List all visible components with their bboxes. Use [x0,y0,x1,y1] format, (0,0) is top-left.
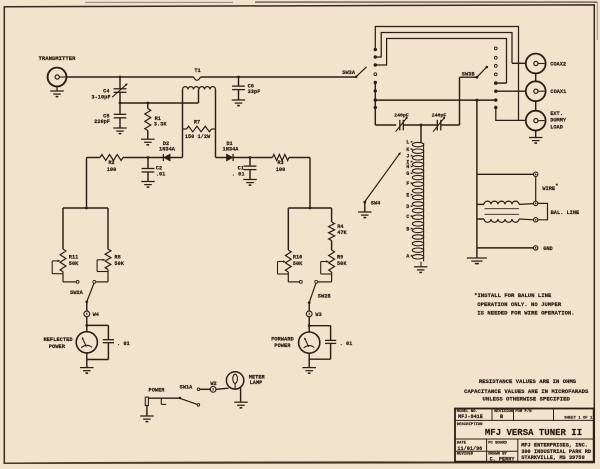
ground [56,86,58,90]
resistor R4 47K [331,208,333,222]
svg-text:R10: R10 [293,255,303,261]
svg-text:EXT.: EXT. [550,111,563,117]
svg-text:D: D [406,204,409,210]
svg-text:B: B [500,414,503,420]
svg-text:COAX2: COAX2 [550,61,566,67]
svg-text:POWER: POWER [49,344,66,350]
wire link outer loop [375,27,518,121]
jack switch contact [160,398,162,404]
svg-text:MFJ VERSA TUNER II: MFJ VERSA TUNER II [485,428,582,438]
meter M2 FORWARD POWER [308,324,311,327]
capacitor C6 33pF [237,76,240,79]
wire pot box top left [63,207,108,209]
potentiometer R8 50K [105,249,111,269]
svg-text:E: E [406,192,409,198]
svg-text:WIRE: WIRE [542,186,555,192]
svg-text:T1: T1 [194,68,200,74]
resistor R1 3.3K [147,103,149,109]
svg-text:47K: 47K [337,230,347,236]
svg-text:50K: 50K [337,261,347,267]
resistor R7 150 1/2W [183,128,187,130]
svg-text:C: C [406,214,409,220]
svg-text:F: F [406,181,409,187]
svg-text:SW4: SW4 [371,201,381,207]
wire connector shield links [535,73,537,81]
svg-text:MFJ-941E: MFJ-941E [458,414,483,420]
diode D2 1N34A [162,154,164,161]
svg-text:11/01/96: 11/01/96 [457,446,482,452]
ground [141,181,155,183]
wire main input line [66,76,193,78]
svg-text:100: 100 [276,167,286,173]
wire between caps [403,124,437,126]
wire T1 right leg [215,90,217,158]
svg-text:SW2B: SW2B [318,293,332,299]
svg-text:. 01: . 01 [117,341,130,347]
capacitor C1 .01 [249,156,252,159]
meter M1 REFLECTED POWER [85,324,88,327]
svg-text:.01: .01 [156,172,166,178]
svg-text:SHEET 1 OF 1: SHEET 1 OF 1 [564,416,593,420]
svg-text:REVISION: REVISION [494,410,513,414]
balun T2 bottom winding [484,219,519,222]
wire T1 center tap [198,90,200,104]
svg-text:FORWARD: FORWARD [271,336,294,342]
transformer T1 secondary winding [183,87,216,90]
wire link middle loop [375,33,512,64]
svg-text:GND: GND [543,246,553,252]
wire COAX2 row [512,62,526,64]
svg-text:TRANSMITTER: TRANSMITTER [39,55,77,62]
wire jumper WIRE to balanced line [535,177,537,202]
ground [535,131,537,138]
svg-text:R3: R3 [277,160,283,166]
svg-text:W3: W3 [315,312,321,318]
svg-text:IS NEEDED FOR WIRE OPERATION.: IS NEEDED FOR WIRE OPERATION. [477,310,574,317]
svg-text:50K: 50K [69,261,79,267]
diode D1 1N34A [227,154,233,161]
wire left drop to pots [86,158,88,209]
capacitor C4 3-10pF variable [119,76,122,79]
wire link inner loop [375,39,506,84]
capacitor 240pF (left variable) [399,120,401,131]
transformer T1 primary dip [194,77,201,80]
wire bypass line SW3A to SW3B [375,99,496,101]
wire meter bottom / ground [308,353,310,368]
title block [455,409,594,462]
terminal BAL LINE bottom [534,218,538,222]
svg-text:3.3K: 3.3K [154,121,168,127]
balun T2 top winding [477,203,484,205]
wire SW3A lower contacts to caps [374,83,376,126]
terminal BAL LINE top [534,201,538,205]
connector COAX2 [526,54,546,74]
svg-text:300 INDUSTRIAL PARK RD: 300 INDUSTRIAL PARK RD [521,449,591,455]
ground [146,406,148,416]
ground [476,248,478,258]
svg-text:DATE: DATE [457,441,467,445]
wire T1 left leg [182,90,184,158]
svg-text:R11: R11 [69,255,79,261]
svg-text:LOAD: LOAD [550,124,563,130]
svg-text:. 01: . 01 [340,341,353,347]
potentiometer R11 50K [60,249,66,272]
svg-text:LAMP: LAMP [250,380,263,386]
wire right drop to pots [309,158,311,209]
svg-text:POWER: POWER [149,388,166,394]
potentiometer R9 50K [329,250,335,272]
wire bal line bracket [538,203,548,219]
connector EXT DUMMY LOAD [526,111,546,131]
terminal GND [477,247,534,249]
lamp METER LAMP [216,388,229,389]
svg-text:A: A [406,253,410,259]
svg-text:FOR P/N: FOR P/N [515,409,532,414]
svg-text:100: 100 [107,167,117,173]
svg-text:1N34A: 1N34A [223,146,240,152]
ground [358,211,372,213]
svg-text:RESISTANCE VALUES ARE IN OHMS: RESISTANCE VALUES ARE IN OHMS [479,378,577,385]
svg-text:K: K [406,147,410,153]
ground [232,99,246,101]
svg-text:R2: R2 [108,160,114,166]
svg-text:3-10pF: 3-10pF [91,95,110,101]
svg-text:50K: 50K [293,261,303,267]
svg-text:DESCRIPTION: DESCRIPTION [457,423,483,427]
svg-text:220pF: 220pF [94,119,110,125]
svg-text:240pF: 240pF [394,113,409,119]
svg-text:. 01: . 01 [232,172,245,178]
svg-text:MFJ ENTERPRISES, INC.: MFJ ENTERPRISES, INC. [521,442,588,448]
svg-text:150 1/2W: 150 1/2W [185,134,211,140]
wire contact5 stub [496,82,507,84]
svg-text:R9: R9 [337,255,343,261]
svg-text:REFLECTED: REFLECTED [43,337,73,343]
svg-text:UNLESS OTHERWISE SPECIFIED: UNLESS OTHERWISE SPECIFIED [483,395,571,402]
svg-text:BAL. LINE: BAL. LINE [551,210,580,216]
svg-text:33pF: 33pF [248,89,261,95]
svg-text:OPERATION ONLY. NO JUMPER: OPERATION ONLY. NO JUMPER [477,301,562,308]
wire pot box top right [288,207,331,209]
scan edge artifacts [85,1,233,3]
wire WIRE terminal drop [475,99,478,102]
svg-text:B: B [406,226,409,232]
switch SW2A [76,280,79,283]
capacitor 240pF (right variable) [436,120,438,131]
ground [141,138,155,140]
svg-text:SW3B: SW3B [462,71,476,77]
svg-text:C. PERRY: C. PERRY [490,456,516,462]
switch SW2B [299,280,302,283]
wire meter bottom / ground [86,352,88,367]
wire detector row left [87,157,101,159]
svg-text:COAX1: COAX1 [550,89,566,95]
svg-text:DUMMY: DUMMY [550,118,567,124]
potentiometer R10 50K [285,250,291,272]
lamp W3 [308,303,310,311]
SW3B contacts [494,47,497,50]
ground [240,388,242,402]
svg-text:CAPACITANCE VALUES ARE IN MICR: CAPACITANCE VALUES ARE IN MICROFARADS [464,388,589,395]
resistor R2 100 [100,155,123,161]
capacitor .01 across reflected meter [87,324,109,326]
svg-text:SW3A: SW3A [342,70,356,76]
svg-text:L: L [406,140,409,146]
ground [414,266,428,268]
wire caps to SW3B wiper [441,124,460,126]
svg-text:1N34A: 1N34A [159,146,176,152]
ground [243,179,257,181]
lamp W4 [86,302,88,311]
ground [113,127,127,129]
capacitor C5 220pF [119,103,121,114]
svg-text:PC BOARD: PC BOARD [488,441,507,445]
svg-text:R7: R7 [194,119,200,125]
lamp W2 [200,388,210,390]
connector COAX1 [526,81,546,101]
wire cap junction to inductor [420,124,423,127]
svg-text:REVISED: REVISED [457,453,474,457]
svg-text:H: H [406,164,409,170]
terminal WIRE [477,173,534,175]
svg-text:G: G [406,171,409,177]
svg-text:W2: W2 [210,381,216,387]
svg-text:R8: R8 [114,255,120,261]
capacitor .01 across forward meter [309,325,330,327]
svg-text:*: * [555,183,558,189]
svg-text:POWER: POWER [274,343,291,349]
balun core bars [485,208,520,210]
capacitor C2 .01 [147,156,150,159]
resistor R3 100 [273,155,290,161]
wire COAX1 row [496,90,526,92]
svg-text:SW1A: SW1A [180,384,194,390]
inductor L1 roller coil [412,142,423,146]
svg-text:*INSTALL FOR BALUN LINE: *INSTALL FOR BALUN LINE [474,292,552,299]
svg-text:SW2A: SW2A [70,290,84,296]
wire detector row right [216,157,227,159]
switch SW4 [363,201,366,204]
wire second row [120,102,199,104]
svg-text:STARKVILLE, MS 39759: STARKVILLE, MS 39759 [521,455,585,461]
svg-text:240pF: 240pF [432,113,447,119]
svg-text:W4: W4 [93,312,100,318]
wire contact8 to dummy load row [496,108,526,121]
wire main line to SW3A [201,76,357,78]
svg-text:50K: 50K [114,261,124,267]
